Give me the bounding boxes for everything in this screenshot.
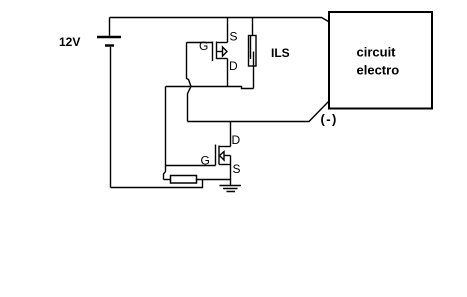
wire gate-net vertical node A <box>164 87 166 180</box>
battery V1 <box>97 18 121 188</box>
wire minus rail to circuit electro <box>188 102 329 122</box>
svg-text:electro: electro <box>357 63 400 78</box>
svg-text:(-): (-) <box>321 112 338 127</box>
wire Q1 gate down with crossover <box>187 43 192 122</box>
reed switch ILS <box>249 18 257 89</box>
svg-text:circuit: circuit <box>357 45 397 60</box>
svg-text:12V: 12V <box>59 35 80 49</box>
transistor Q1 top P-MOSFET <box>187 18 228 87</box>
svg-text:G: G <box>201 154 210 168</box>
svg-text:G: G <box>199 39 208 53</box>
wire drain node horizontal <box>166 87 254 89</box>
svg-text:D: D <box>229 59 238 73</box>
svg-text:S: S <box>230 30 238 44</box>
box circuit electro <box>329 12 432 109</box>
svg-text:ILS: ILS <box>271 46 290 60</box>
ground <box>220 186 242 192</box>
resistor R1 <box>164 176 231 184</box>
svg-text:D: D <box>232 133 241 147</box>
transistor Q2 bottom N-MOSFET <box>216 122 231 186</box>
wire Q2 gate lead <box>166 165 216 167</box>
wire bottom rail battery minus <box>111 180 203 188</box>
svg-text:S: S <box>233 162 241 176</box>
wire +12V top rail <box>110 18 329 22</box>
